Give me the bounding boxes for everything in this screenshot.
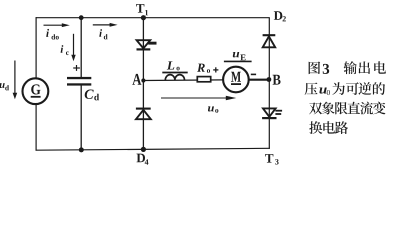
diode D4	[136, 109, 151, 120]
label T1	[136, 4, 148, 15]
label Lo	[167, 61, 180, 70]
label D2	[274, 11, 286, 21]
label Cd	[85, 90, 99, 101]
generator G	[23, 78, 49, 104]
arrow uo output voltage	[161, 96, 236, 100]
node junction D4 bottom	[141, 147, 146, 152]
wire capacitor branch upper	[80, 18, 82, 77]
node junction capacitor top	[79, 15, 84, 20]
inductor Lo core bar	[162, 72, 187, 74]
thyristor T3	[262, 108, 282, 118]
label T3	[265, 154, 279, 164]
resistor Ro	[197, 77, 210, 82]
arrow ud voltage direction	[13, 61, 18, 100]
label Ro	[197, 64, 210, 73]
label ud	[0, 83, 9, 90]
motor plus terminal sign	[213, 67, 218, 72]
wire armature branch A to B	[143, 80, 269, 81]
thyristor T1	[137, 40, 157, 49]
capacitor Cd polarity plus sign	[73, 65, 80, 71]
motor M	[223, 67, 249, 93]
wire D4 branch	[142, 81, 144, 150]
label B	[273, 75, 281, 85]
capacitor Cd	[67, 77, 91, 86]
caption line 1: 图3 输出电	[309, 61, 386, 74]
node B junction	[267, 77, 272, 82]
arrow id	[93, 23, 118, 27]
node A junction	[141, 78, 145, 82]
label id	[99, 29, 107, 39]
arrow ic	[71, 34, 75, 61]
wire T1 branch	[142, 18, 144, 81]
label uo	[208, 106, 218, 112]
label D4	[137, 154, 149, 165]
label A	[132, 74, 141, 85]
node junction T1 top	[141, 15, 146, 20]
arrow ido	[44, 23, 70, 27]
inductor Lo winding	[165, 75, 184, 81]
wire top rail	[36, 17, 270, 19]
uE voltage bar	[224, 60, 252, 62]
wire left rail lower	[35, 104, 37, 151]
motor minus terminal sign	[251, 73, 256, 75]
label ido	[46, 29, 59, 40]
caption line 2: 压u0为可逆的	[305, 82, 385, 95]
wire motor to node B stub	[249, 79, 268, 81]
wire right rail	[268, 17, 270, 148]
wire left rail upper	[35, 17, 37, 78]
wire bottom rail	[36, 148, 270, 150]
wire capacitor branch lower	[80, 85, 82, 149]
label uE	[233, 52, 246, 60]
caption line 3: 双象限直流变	[309, 102, 385, 115]
label ic	[61, 45, 69, 55]
diode D2	[263, 35, 276, 47]
caption line 4: 换电路	[309, 121, 348, 134]
node junction capacitor bottom	[79, 147, 84, 152]
